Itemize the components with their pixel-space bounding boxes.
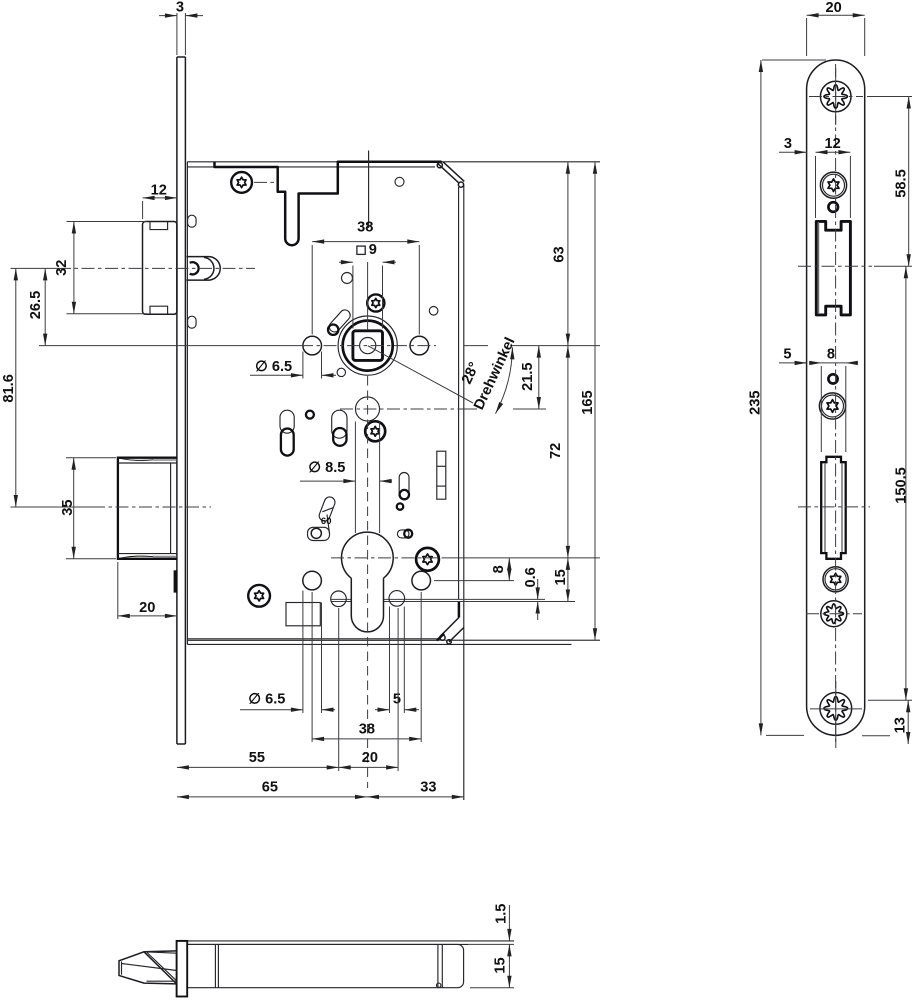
svg-text:32: 32: [54, 260, 70, 276]
svg-text:0.6: 0.6: [523, 567, 539, 587]
svg-text:38: 38: [357, 220, 373, 236]
svg-text:20: 20: [139, 600, 155, 616]
svg-text:12: 12: [151, 183, 167, 199]
svg-text:150.5: 150.5: [894, 467, 910, 504]
svg-text:8: 8: [491, 565, 507, 573]
svg-text:38: 38: [359, 722, 375, 738]
svg-text:15: 15: [492, 957, 508, 973]
svg-text:81.6: 81.6: [1, 374, 17, 402]
svg-text:∅ 6.5: ∅ 6.5: [255, 359, 292, 375]
svg-text:15: 15: [553, 569, 569, 585]
svg-text:5: 5: [393, 691, 401, 707]
svg-text:63: 63: [552, 246, 568, 262]
svg-text:165: 165: [580, 390, 596, 414]
svg-text:20: 20: [825, 0, 841, 16]
svg-text:8: 8: [827, 347, 835, 363]
svg-text:26.5: 26.5: [28, 291, 44, 319]
svg-text:58.5: 58.5: [893, 169, 909, 197]
svg-text:33: 33: [420, 780, 436, 796]
svg-text:12: 12: [824, 136, 840, 152]
svg-text:5: 5: [783, 347, 791, 363]
svg-text:∅ 6.5: ∅ 6.5: [248, 691, 285, 707]
svg-text:21.5: 21.5: [520, 362, 536, 390]
svg-text:20: 20: [362, 750, 378, 766]
svg-text:55: 55: [249, 750, 265, 766]
svg-text:13: 13: [893, 717, 909, 733]
svg-text:65: 65: [262, 780, 278, 796]
svg-text:∅ 8.5: ∅ 8.5: [308, 460, 345, 476]
svg-text:72: 72: [548, 443, 564, 459]
svg-text:60: 60: [321, 516, 332, 527]
svg-text:1.5: 1.5: [493, 904, 509, 924]
svg-text:3: 3: [784, 136, 792, 152]
svg-text:9: 9: [369, 242, 377, 258]
